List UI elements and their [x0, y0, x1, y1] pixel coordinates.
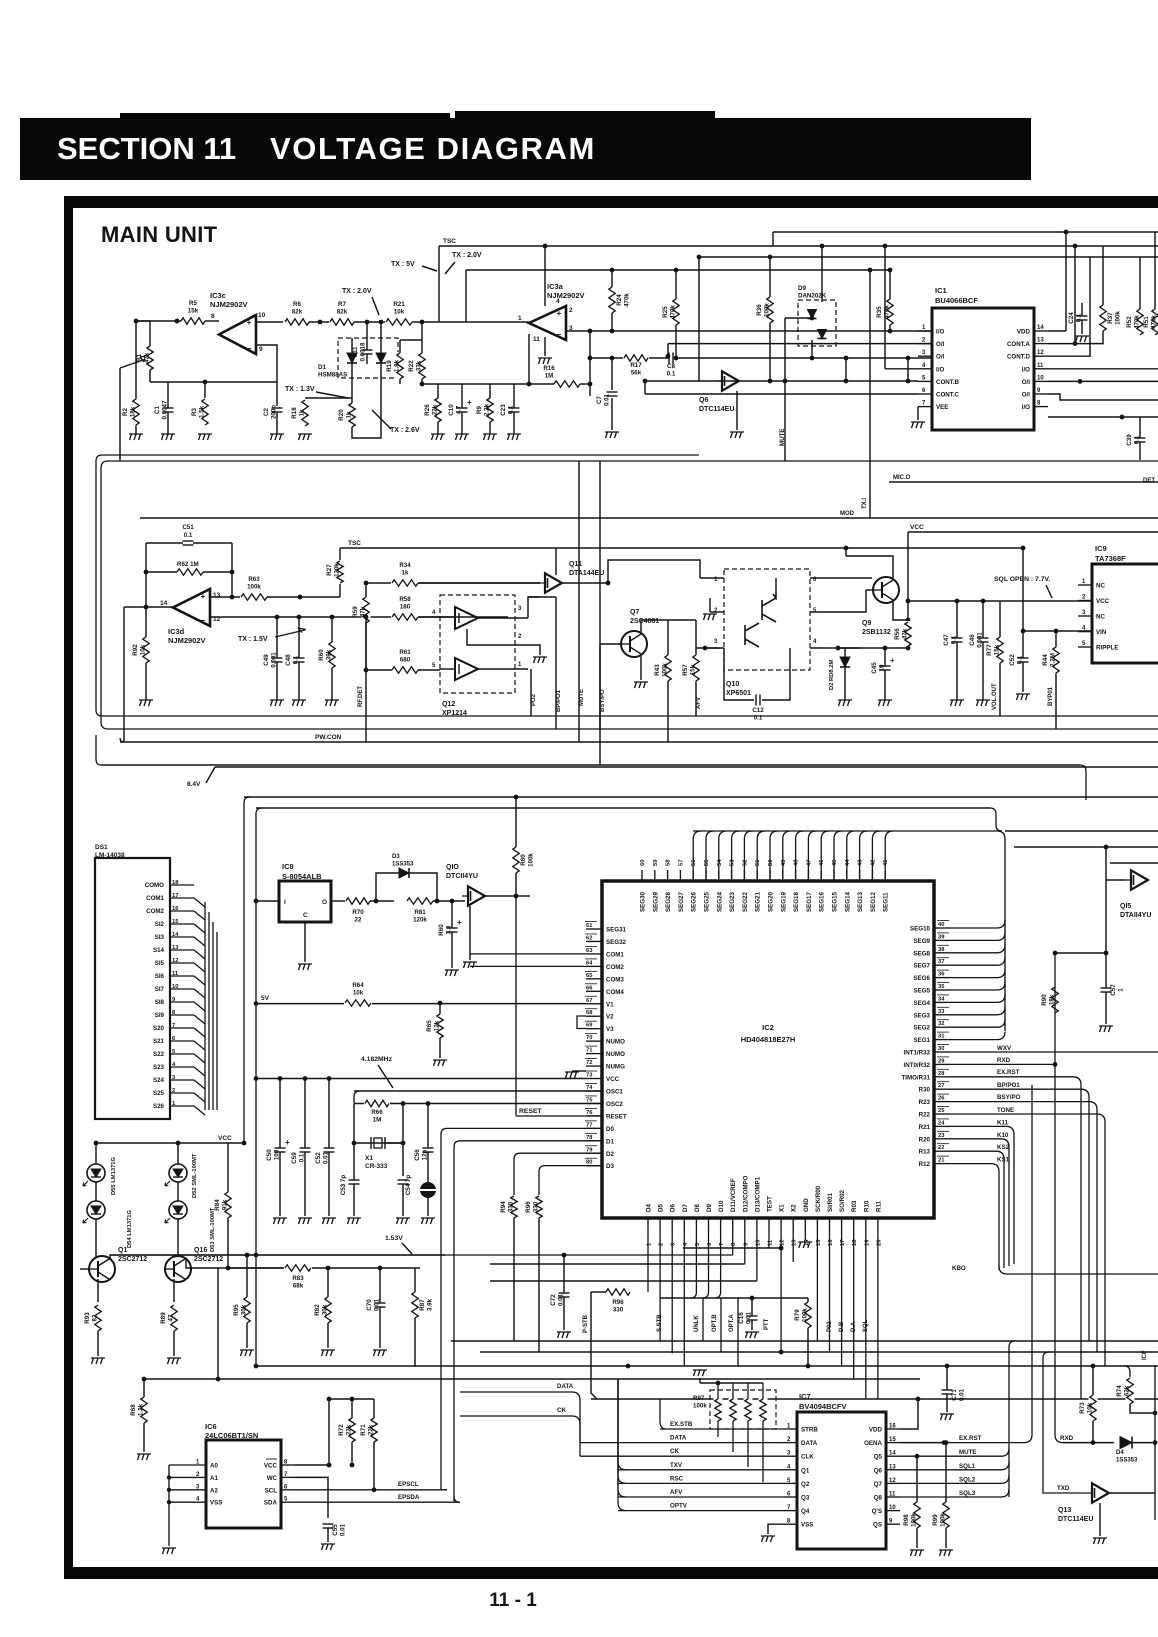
IC2 pin 25 R22 — [934, 1113, 950, 1115]
svg-text:DS1: DS1 — [95, 844, 108, 851]
capacitor C50 100 — [274, 1147, 286, 1153]
IC7 pin 15 OENA — [886, 1442, 900, 1444]
svg-text:S21: S21 — [153, 1038, 165, 1045]
node vdd7 — [916, 1397, 921, 1402]
wire C56 g — [427, 1198, 429, 1216]
zener D2 — [840, 657, 850, 667]
svg-text:30k: 30k — [322, 1304, 329, 1315]
svg-text:R12: R12 — [919, 1161, 931, 1168]
wire R35 b — [889, 325, 891, 331]
svg-text:C1: C1 — [154, 405, 161, 413]
svg-text:680: 680 — [400, 657, 411, 664]
node R22 top — [420, 320, 425, 325]
wire R1 bottom — [149, 370, 151, 382]
svg-text:SI5: SI5 — [155, 960, 165, 967]
svg-text:QS: QS — [873, 1522, 882, 1529]
svg-text:R56: R56 — [894, 628, 901, 640]
wire R63 r — [267, 596, 340, 598]
ground R92 — [139, 700, 153, 706]
svg-text:R26: R26 — [424, 404, 431, 416]
wire IC3a out — [566, 330, 932, 332]
pointer TX2.6 — [372, 410, 391, 429]
svg-text:R36: R36 — [756, 304, 763, 316]
IC2 pin 65 COM3 — [586, 978, 602, 980]
wire r97 common — [700, 1382, 763, 1384]
wire R37 t — [1102, 246, 1104, 305]
wire R98 b — [916, 1528, 918, 1548]
svg-text:BP/PO1: BP/PO1 — [556, 689, 562, 712]
wire C56 b — [427, 1152, 429, 1182]
IC6 left dot 3 — [167, 1488, 171, 1492]
IC IC9 TA7368F — [1092, 564, 1158, 663]
svg-text:X1: X1 — [365, 1155, 373, 1162]
svg-text:C52: C52 — [315, 1152, 322, 1164]
wire IC7 feed 3 — [580, 1455, 783, 1457]
wire loop y461-y729 — [101, 461, 1158, 729]
svg-text:CONT.C: CONT.C — [936, 392, 960, 399]
transistor Q1 2SC2712 — [89, 1256, 115, 1282]
node D1b — [379, 320, 384, 325]
wire C59 b — [304, 1152, 306, 1216]
wire 1.53V rail — [110, 1254, 733, 1256]
transistor Q10a — [762, 592, 776, 622]
svg-text:IC3d: IC3d — [168, 627, 185, 636]
node fb in — [527, 382, 532, 387]
svg-text:120k: 120k — [413, 917, 427, 924]
svg-text:R3: R3 — [191, 407, 198, 415]
svg-text:IC9: IC9 — [1095, 544, 1107, 553]
wire IC7 feed EX.STB — [660, 1428, 783, 1430]
svg-text:R20: R20 — [919, 1136, 931, 1143]
wire bus 8.4V — [215, 766, 1158, 768]
wire R65 b — [439, 1038, 441, 1058]
svg-text:29: 29 — [938, 1058, 945, 1064]
svg-text:SEG13: SEG13 — [857, 891, 864, 912]
IC1 pin 3 O/I — [918, 355, 932, 357]
svg-text:R59: R59 — [352, 606, 359, 618]
wire R95 b — [246, 1323, 248, 1348]
node 256 1366 — [254, 1364, 259, 1369]
svg-text:R30: R30 — [919, 1087, 931, 1094]
wire led col2c — [177, 1219, 179, 1257]
wire C11 bot — [366, 354, 368, 364]
svg-text:R84: R84 — [214, 1199, 221, 1211]
IC7 pin 3 CLK — [783, 1455, 797, 1457]
svg-text:IC8: IC8 — [282, 862, 294, 871]
wire C11 top — [366, 322, 368, 350]
node 601a — [955, 599, 960, 604]
corner osc — [354, 1091, 360, 1103]
wire C45 b — [884, 670, 886, 700]
node r68 — [142, 1377, 147, 1382]
wire q15 in — [1106, 879, 1125, 881]
resistor R64 10k — [344, 999, 372, 1008]
wire xtal left — [353, 1104, 355, 1144]
svg-text:EX.RST: EX.RST — [959, 1435, 982, 1442]
svg-text:A1: A1 — [210, 1475, 218, 1482]
node 1055 953 — [1053, 951, 1058, 956]
node 908 648 — [906, 646, 911, 651]
node xtal r — [401, 1141, 406, 1146]
wire pins 5-7 drops — [695, 1230, 697, 1292]
svg-text:8.4V: 8.4V — [187, 781, 201, 788]
svg-text:D8: D8 — [694, 1204, 701, 1212]
wire q10y right stub — [516, 895, 530, 897]
svg-text:CONT.A: CONT.A — [1007, 341, 1031, 348]
svg-text:SI2: SI2 — [155, 921, 165, 928]
wire y583 to Q11 — [418, 582, 540, 584]
wire bus 232 elbow — [772, 232, 774, 246]
svg-text:5V: 5V — [261, 995, 270, 1002]
op-amp IC3c — [219, 315, 256, 354]
svg-text:R96: R96 — [525, 1201, 532, 1213]
svg-text:10: 10 — [1037, 375, 1044, 381]
svg-text:R82: R82 — [314, 1304, 321, 1316]
IC IC8 S-8054ALB — [279, 881, 331, 922]
wire C51 left — [146, 542, 183, 544]
resistor R97-3 — [744, 1398, 753, 1422]
transistor Q9 2SB1132 — [873, 577, 899, 603]
svg-text:R2: R2 — [122, 407, 129, 415]
svg-text:BYP01: BYP01 — [1048, 686, 1054, 706]
node q11 out — [606, 581, 611, 586]
IC2 pin 14 GND — [804, 1218, 806, 1230]
ground Q13 — [1093, 1538, 1107, 1544]
wire D2 b — [844, 668, 846, 700]
svg-text:R11: R11 — [875, 1200, 882, 1212]
node a2 — [365, 320, 370, 325]
svg-text:SEG1: SEG1 — [913, 1037, 930, 1044]
IC1 pin 9 O/I — [1034, 393, 1048, 395]
svg-text:470k: 470k — [1134, 315, 1141, 329]
wire D1b top — [380, 322, 382, 353]
svg-text:9: 9 — [259, 346, 263, 353]
wire TONE — [950, 1114, 1105, 1366]
svg-text:BP/PO1: BP/PO1 — [997, 1082, 1020, 1089]
svg-text:S23: S23 — [153, 1064, 165, 1071]
svg-text:R20: R20 — [338, 409, 345, 421]
node ic6 vcc — [327, 1463, 332, 1468]
corner pwcon — [120, 738, 124, 742]
svg-text:VIN: VIN — [1096, 629, 1107, 636]
ground C7 — [605, 432, 619, 438]
ground R68 — [137, 1454, 151, 1460]
svg-text:EX.RST: EX.RST — [997, 1069, 1020, 1076]
svg-text:C57: C57 — [1110, 984, 1117, 996]
ground IC7 — [761, 1536, 775, 1542]
wire IC3c fb — [205, 345, 277, 382]
svg-text:D.A: D.A — [851, 1321, 857, 1332]
resistor R35 470k — [886, 298, 895, 326]
wire TSC vertical — [438, 246, 440, 322]
ground R65 — [433, 1060, 447, 1066]
main frame border — [64, 196, 1158, 208]
wire WXV — [950, 1051, 1158, 1053]
svg-text:C: C — [303, 912, 308, 919]
svg-text:12k: 12k — [434, 1020, 441, 1031]
svg-text:DTA144EU: DTA144EU — [569, 570, 604, 577]
svg-text:14: 14 — [1037, 325, 1044, 331]
svg-text:VSS: VSS — [801, 1522, 813, 1529]
corner y765 — [96, 735, 101, 765]
resistor R97-1 — [714, 1398, 723, 1422]
svg-text:100k: 100k — [662, 663, 669, 677]
ground Q6 — [730, 432, 744, 438]
node fb c — [588, 382, 593, 387]
svg-text:15k: 15k — [994, 644, 1001, 655]
wire R21 out — [412, 321, 529, 323]
svg-text:63: 63 — [586, 948, 593, 954]
ground R93 — [91, 1358, 105, 1364]
svg-text:R27: R27 — [326, 564, 333, 576]
svg-text:R10: R10 — [863, 1200, 870, 1212]
wire IC1 vdd up — [1065, 232, 1067, 331]
svg-text:R22: R22 — [919, 1112, 931, 1119]
diode D1a — [347, 353, 357, 363]
node c48 — [297, 615, 302, 620]
corner y808 right — [990, 808, 1002, 831]
svg-text:2SB1132: 2SB1132 — [862, 629, 891, 636]
ground C24 — [1075, 336, 1089, 342]
wire C7 stub — [611, 358, 613, 390]
node 1081 d — [327, 1076, 332, 1081]
wire led col2 — [177, 1143, 179, 1164]
svg-text:R60: R60 — [438, 924, 445, 936]
wire D1 wrap — [454, 1141, 602, 1502]
svg-text:SECTION 11: SECTION 11 — [57, 131, 236, 166]
IC2 pin 9 D12/COMPO — [744, 1218, 746, 1230]
capacitor C59 0.1 — [299, 1147, 311, 1153]
wire Q16 row — [186, 1260, 420, 1268]
wire bus MIC.O — [889, 481, 1158, 483]
resistor R90 18k — [1051, 986, 1060, 1014]
ground C10 — [455, 434, 469, 440]
svg-text:SEG22: SEG22 — [742, 891, 749, 912]
svg-text:V1: V1 — [606, 1001, 614, 1008]
svg-text:TX : 2.6V: TX : 2.6V — [390, 427, 420, 434]
IC6 pin 4 VSS — [169, 1501, 206, 1503]
svg-text:D3: D3 — [392, 854, 400, 860]
svg-text:22k: 22k — [346, 1424, 353, 1435]
IC2 pin 42 SEG12 — [871, 870, 873, 881]
IC2 pin 31 SEG1 — [934, 1039, 950, 1041]
svg-text:47: 47 — [168, 1314, 175, 1321]
svg-text:0.01: 0.01 — [604, 393, 611, 406]
svg-text:SQL3: SQL3 — [959, 1490, 976, 1497]
IC2 pin 3 D6 — [671, 1218, 673, 1230]
IC2 pin 68 V2 — [586, 1015, 602, 1017]
svg-text:IC6: IC6 — [205, 1422, 217, 1431]
node r72 b — [350, 1463, 355, 1468]
resistor R58 180 — [391, 613, 419, 622]
svg-text:MIC.O: MIC.O — [893, 475, 911, 481]
svg-text:2.2k: 2.2k — [484, 403, 491, 416]
svg-text:VCC: VCC — [910, 524, 924, 531]
wire bundle bus right — [1005, 830, 1158, 832]
IC2 pin 51 SEG21 — [756, 870, 758, 881]
wire Q1 row — [110, 1255, 445, 1260]
resistor R17 56k — [623, 354, 649, 363]
wire R44 t — [1055, 631, 1057, 647]
wire Q12 out up — [528, 597, 540, 618]
svg-text:68: 68 — [586, 1010, 593, 1016]
capacitor C55 0.01 — [322, 1523, 334, 1529]
svg-text:2.2M: 2.2M — [1050, 653, 1057, 667]
ground R26 — [431, 434, 445, 440]
IC6 pin 1 A0 — [169, 1464, 206, 1466]
svg-text:R87: R87 — [419, 1299, 426, 1311]
svg-text:+: + — [557, 309, 562, 318]
svg-text:PW.CON: PW.CON — [315, 734, 342, 741]
wire R79 t — [807, 1298, 809, 1302]
resistor R27 120k — [336, 560, 345, 584]
capacitor C71 0.01 — [941, 1389, 953, 1395]
svg-text:D55 LM1371G: D55 LM1371G — [111, 1156, 117, 1195]
wire Q12a out — [478, 617, 528, 619]
IC7 pin 9 QS — [886, 1523, 900, 1525]
wire SQL1 — [900, 1462, 1009, 1470]
wire R56t bot — [769, 323, 771, 381]
wire pins 8-10 short drops — [732, 1230, 734, 1255]
node r60 t — [450, 899, 455, 904]
capacitor C51 0.1 — [182, 540, 194, 546]
svg-text:22: 22 — [355, 917, 362, 924]
resistor R93 82 — [94, 1304, 103, 1332]
wire gnd stub — [544, 337, 546, 356]
node a1 — [318, 320, 323, 325]
wire R60c t — [451, 901, 453, 928]
svg-text:I: I — [284, 899, 286, 906]
wire C16 t — [751, 1298, 753, 1316]
svg-text:78: 78 — [586, 1135, 593, 1141]
svg-text:D1: D1 — [606, 1138, 614, 1145]
wire R52 t — [1139, 257, 1141, 309]
wire osc1 rail — [354, 1090, 602, 1092]
resistor R83 68k — [284, 1264, 312, 1273]
svg-text:VCC: VCC — [218, 1135, 232, 1142]
wire R80 t — [515, 797, 517, 847]
svg-text:TSC: TSC — [348, 540, 361, 547]
svg-text:OPTV: OPTV — [670, 1503, 688, 1510]
wire R98 t — [916, 1456, 918, 1502]
diode D3 — [399, 868, 409, 878]
svg-text:I/O: I/O — [1022, 404, 1030, 411]
svg-text:1.2k: 1.2k — [138, 1403, 145, 1416]
transistor Q15 DTA114YU — [1131, 870, 1148, 890]
ground C54 — [396, 1218, 410, 1224]
ground C52 — [1016, 694, 1030, 700]
resistor R5 15k — [180, 317, 206, 326]
svg-text:OSC2: OSC2 — [606, 1101, 623, 1108]
wire R87 t — [414, 1268, 416, 1292]
wire R20 top — [351, 398, 353, 403]
svg-text:79: 79 — [586, 1147, 593, 1153]
node r82 — [326, 1266, 331, 1271]
svg-text:O: O — [322, 899, 327, 906]
node r65 t — [438, 1001, 443, 1006]
ground C57 — [1099, 1026, 1113, 1032]
svg-text:22: 22 — [938, 1145, 944, 1151]
op-amp IC3a — [529, 306, 566, 340]
wire C1 b — [167, 412, 169, 434]
pointer TX2.0 mid — [445, 262, 455, 274]
resistor R98 100k — [913, 1501, 922, 1529]
wire RESET from Q10y — [515, 896, 517, 1116]
wire xtal r — [385, 1142, 403, 1144]
wire IC1 pin4 in — [885, 368, 918, 370]
wire C70 t — [379, 1268, 381, 1303]
ground C49 — [270, 700, 284, 706]
wire Q11 up — [555, 548, 557, 575]
svg-text:C72: C72 — [550, 1294, 557, 1306]
resistor R97-2 — [729, 1398, 738, 1422]
IC2 pin 75 OSC2 — [586, 1102, 602, 1104]
svg-text:NC: NC — [1096, 583, 1105, 590]
wire C71 t — [946, 1366, 948, 1390]
wire R68 b — [143, 1423, 145, 1452]
ground C71 — [940, 1414, 954, 1420]
resistor R21 10k — [385, 318, 413, 327]
ground C46 — [976, 700, 990, 706]
svg-text:X2: X2 — [791, 1204, 798, 1212]
svg-text:VCC: VCC — [264, 1463, 278, 1470]
ground NUMG sym — [565, 1072, 579, 1078]
svg-text:R79: R79 — [794, 1309, 801, 1321]
svg-text:INT1/R33: INT1/R33 — [904, 1050, 931, 1057]
svg-text:EX.STB: EX.STB — [670, 1421, 693, 1428]
transistor Q10b — [745, 623, 759, 647]
wire R37 b — [1075, 331, 1103, 344]
svg-text:OPT.A: OPT.A — [729, 1314, 735, 1332]
svg-text:BV4094BCFV: BV4094BCFV — [799, 1402, 847, 1411]
node opamp in — [175, 319, 180, 324]
svg-text:32: 32 — [938, 1021, 944, 1027]
ground R60c — [445, 970, 459, 976]
resistor R25 470k — [672, 298, 681, 326]
svg-text:R64: R64 — [352, 982, 364, 989]
svg-text:D5: D5 — [658, 1204, 665, 1212]
svg-text:59: 59 — [653, 859, 659, 866]
svg-text:33: 33 — [938, 1009, 945, 1015]
IC1 pin 10 O/I — [1034, 380, 1048, 382]
wire D9 down — [811, 340, 813, 358]
wire bus y1341 — [451, 1340, 1158, 1342]
svg-text:46: 46 — [819, 859, 825, 866]
svg-text:D4: D4 — [1116, 1450, 1124, 1456]
LED D52 SML-100MT — [169, 1164, 187, 1182]
resistor R34 1k — [391, 579, 419, 588]
svg-text:MUTE: MUTE — [959, 1449, 977, 1456]
IC2 pin 47 SEG17 — [807, 870, 809, 881]
wire R99 t — [945, 1443, 947, 1502]
IC2 pin 20 R11 — [877, 1218, 879, 1230]
wire IC7 feed AFV — [618, 1496, 783, 1498]
wire Q9 coll top — [846, 556, 893, 580]
node r60 t — [330, 615, 335, 620]
svg-text:62k: 62k — [1124, 1385, 1131, 1396]
svg-text:C48: C48 — [285, 654, 292, 666]
wire SQL bus riser — [1009, 1341, 1015, 1497]
svg-text:13: 13 — [889, 1464, 896, 1470]
wire Q12a in — [440, 616, 455, 618]
svg-text:1.5k: 1.5k — [199, 405, 206, 418]
svg-text:DATA: DATA — [801, 1440, 818, 1447]
node c52 — [1021, 629, 1026, 634]
IC2 pin 33 SEG3 — [934, 1014, 950, 1016]
wire R61 r — [418, 669, 440, 671]
IC2 pin 71 NUMO — [586, 1053, 602, 1055]
svg-text:S24: S24 — [153, 1077, 165, 1084]
